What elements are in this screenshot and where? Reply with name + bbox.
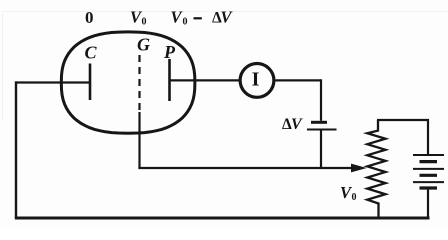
potentiometer R zigzag [367,120,385,218]
battery B (3 cells) [413,154,444,156]
wire down to dV cell [320,79,322,121]
svg-text:C: C [85,43,98,63]
tube envelope V1 [61,32,195,133]
faint scan border (decorative) [2,11,448,13]
plate P electrode [168,59,171,101]
svg-text:0: 0 [142,17,147,28]
wire ammeter to dV branch [276,79,322,81]
wire plate to ammeter [170,79,240,81]
wire grid lead down [138,112,140,169]
battery dV long plate [307,129,337,131]
svg-text:0: 0 [352,192,357,203]
wire battery to bottom [427,188,429,218]
grid G electrode (dashed) [138,55,140,112]
wire left vertical [15,81,17,218]
ammeter I [240,64,274,98]
svg-text:I: I [252,69,260,91]
wire potentiometer top to battery [377,120,428,155]
wire cathode lead [15,81,90,83]
cathode C electrode [89,64,92,101]
wire dV cell to wiper wire [320,130,322,169]
svg-text:0: 0 [85,8,94,27]
wiper arrowhead [351,164,367,173]
battery dV short plate [311,121,327,124]
svg-text:V: V [291,116,303,133]
wire bottom [15,217,430,220]
wire grid to potentiometer wiper [138,167,352,169]
svg-text:0: 0 [183,17,188,28]
svg-text:G: G [137,35,150,55]
